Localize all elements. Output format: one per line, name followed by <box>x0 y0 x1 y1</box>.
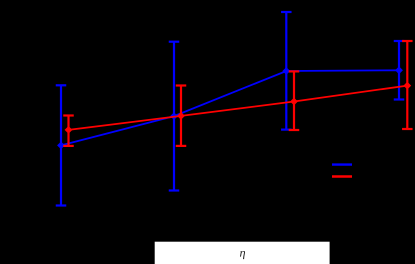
blue error bar point 4 <box>394 41 405 100</box>
blue error bar point 1 <box>56 85 67 205</box>
x-axis label eta <box>240 251 245 259</box>
blue error bar point 2 <box>169 42 180 191</box>
red marker point 2 <box>177 112 185 120</box>
red error bar point 2 <box>176 86 187 146</box>
blue marker point 3 <box>282 67 290 75</box>
blue series line <box>61 70 399 145</box>
red series line <box>69 86 408 130</box>
blue marker point 2 <box>170 112 178 120</box>
red error bar point 4 <box>402 41 413 129</box>
legend blue sample line <box>332 163 352 165</box>
red marker point 1 <box>65 126 73 134</box>
blue marker point 1 <box>57 142 65 150</box>
red marker point 4 <box>403 82 411 90</box>
blue error bar point 3 <box>281 12 292 130</box>
legend red sample line <box>332 175 352 177</box>
blue marker point 4 <box>395 66 403 74</box>
red error bar point 1 <box>63 116 74 146</box>
red marker point 3 <box>290 98 298 106</box>
red error bar point 3 <box>289 71 300 130</box>
x-axis label box <box>155 242 330 264</box>
